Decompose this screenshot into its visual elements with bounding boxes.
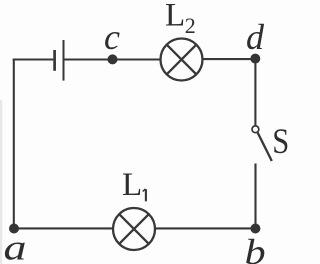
svg-text:2: 2: [185, 13, 196, 38]
battery cell negative plate (short): [53, 50, 56, 71]
wire left vertical (a to battery corner): [13, 60, 15, 229]
svg-text:L: L: [165, 0, 185, 34]
battery cell positive plate (long): [63, 40, 65, 81]
scan shadow left edge: [0, 100, 2, 264]
lamp L1 cross stroke 2: [119, 214, 149, 244]
lamp L1 cross stroke 1: [119, 214, 149, 244]
wire bottom-right (lamp L1 to node b): [156, 227, 257, 229]
node b junction dot: [250, 224, 260, 234]
switch S blade: [258, 133, 272, 161]
node c junction dot: [108, 54, 118, 64]
switch S pivot circle: [252, 126, 259, 133]
label lamp L1 subscript 1: [143, 189, 146, 201]
lamp L2 cross stroke 2: [167, 45, 197, 75]
lamp L1 circle: [113, 208, 155, 250]
wire right lower (switch contact to node b): [254, 164, 256, 229]
svg-text:a: a: [4, 227, 27, 264]
node a junction dot: [9, 224, 19, 234]
lamp L2 cross stroke 1: [167, 45, 197, 75]
wire lamp L2 to node d: [202, 58, 255, 60]
svg-text:S: S: [272, 121, 289, 161]
wire top-left (corner to battery negative): [13, 58, 54, 60]
svg-text:L: L: [122, 167, 142, 203]
svg-text:c: c: [104, 17, 120, 57]
wire right upper (d down to switch pivot): [254, 59, 256, 126]
wire bottom-left (node a to lamp L1): [13, 227, 113, 229]
svg-text:d: d: [246, 17, 265, 57]
node d junction dot: [250, 54, 260, 64]
lamp L2 circle: [161, 39, 203, 81]
wire battery to lamp L2 (through node c): [65, 58, 161, 60]
svg-text:b: b: [245, 232, 266, 264]
